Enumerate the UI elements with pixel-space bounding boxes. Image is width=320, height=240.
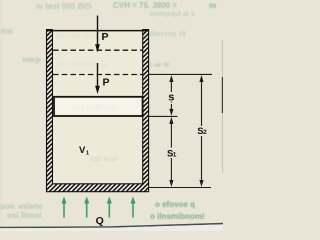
svg-text:P: P: [102, 31, 109, 43]
svg-text:1: 1: [173, 152, 177, 159]
svg-text:m: m: [209, 1, 216, 10]
svg-text:nsdqsqst al s: nsdqsqst al s: [150, 11, 195, 18]
svg-text:uov. vsîenc: uov. vsîenc: [0, 202, 44, 211]
svg-text:o ilnsmibnoml: o ilnsmibnoml: [150, 212, 204, 221]
svg-text:Q: Q: [96, 215, 104, 227]
svg-text:CVH = 75. 3800 =: CVH = 75. 3800 =: [113, 1, 177, 10]
svg-text:o efovoe q: o efovoe q: [155, 200, 195, 209]
svg-text:P: P: [103, 77, 110, 89]
svg-text:1: 1: [86, 150, 89, 156]
svg-text:m løst 000 ØfS: m løst 000 ØfS: [36, 2, 92, 11]
svg-text:tilssvsq 10: tilssvsq 10: [150, 31, 186, 38]
svg-text:RìB: RìB: [1, 29, 13, 36]
svg-text:V: V: [79, 145, 86, 156]
svg-text:060 ksal: 060 ksal: [90, 157, 117, 164]
svg-text:osl Iîosni: osl Iîosni: [7, 211, 42, 220]
svg-text:bms smsiziki al: bms smsiziki al: [56, 62, 107, 69]
svg-text:ops SAR kopl: ops SAR kopl: [72, 105, 118, 112]
svg-text:2: 2: [203, 129, 207, 136]
svg-text:integr: integr: [22, 57, 42, 64]
svg-text:s: s: [168, 91, 174, 103]
